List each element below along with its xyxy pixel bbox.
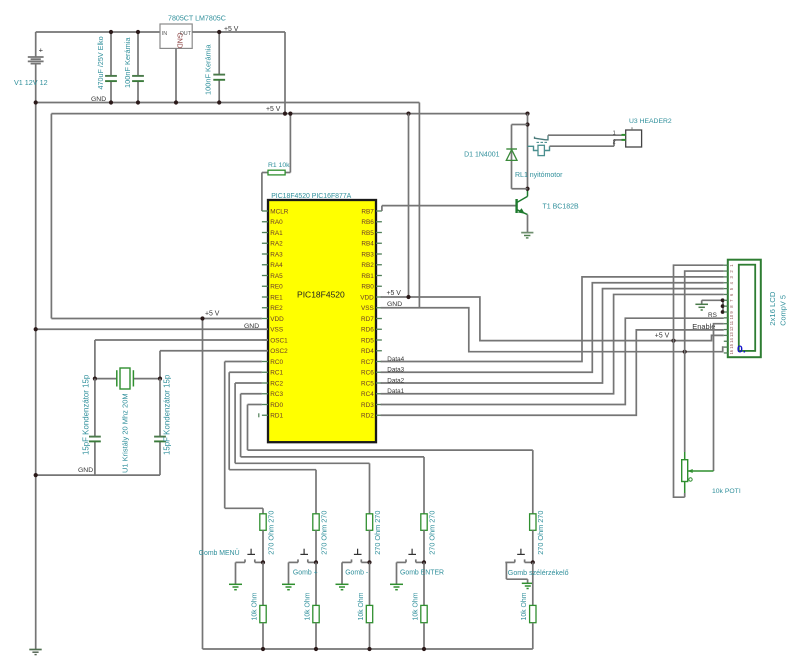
svg-text:Gomb ENTER: Gomb ENTER xyxy=(400,570,444,577)
svg-text:RA3: RA3 xyxy=(270,251,283,258)
svg-text:2x16 LCD: 2x16 LCD xyxy=(768,291,777,326)
svg-text:270 Ohm 270: 270 Ohm 270 xyxy=(427,511,436,555)
svg-text:Gomb MENÜ: Gomb MENÜ xyxy=(199,549,240,557)
svg-text:GND: GND xyxy=(175,33,184,49)
svg-text:10k Ohm: 10k Ohm xyxy=(358,592,365,620)
svg-text:GND: GND xyxy=(91,96,106,103)
svg-text:10: 10 xyxy=(729,314,734,319)
svg-text:RC7: RC7 xyxy=(361,359,374,366)
svg-text:R1 10k: R1 10k xyxy=(268,162,290,169)
svg-text:10k Ohm: 10k Ohm xyxy=(251,592,258,620)
svg-text:470uF /25V Elko: 470uF /25V Elko xyxy=(96,36,105,89)
svg-text:VDD: VDD xyxy=(270,316,284,323)
svg-text:RB2: RB2 xyxy=(361,262,374,269)
svg-text:RB4: RB4 xyxy=(361,241,374,248)
svg-text:RD7: RD7 xyxy=(361,316,374,323)
svg-text:RC2: RC2 xyxy=(270,380,283,387)
svg-text:10k POTI: 10k POTI xyxy=(712,488,741,495)
svg-text:RD4: RD4 xyxy=(361,348,374,355)
svg-text:RC6: RC6 xyxy=(361,370,374,377)
svg-text:270 Ohm 270: 270 Ohm 270 xyxy=(373,511,382,555)
svg-text:Gomb +: Gomb + xyxy=(293,570,318,577)
svg-text:RC4: RC4 xyxy=(361,391,374,398)
svg-text:270 Ohm 270: 270 Ohm 270 xyxy=(266,511,275,555)
svg-text:100nF Kerámia: 100nF Kerámia xyxy=(123,37,132,88)
svg-text:+: + xyxy=(39,45,44,54)
svg-text:12: 12 xyxy=(729,326,734,331)
svg-text:RA4: RA4 xyxy=(270,262,283,269)
svg-text:Data2: Data2 xyxy=(387,377,404,384)
svg-text:RB7: RB7 xyxy=(361,208,374,215)
svg-text:GND: GND xyxy=(244,323,259,330)
svg-text:RB5: RB5 xyxy=(361,230,374,237)
svg-text:RS: RS xyxy=(708,312,717,319)
svg-text:RE2: RE2 xyxy=(270,305,283,312)
svg-text:RD5: RD5 xyxy=(361,337,374,344)
svg-text:OSC1: OSC1 xyxy=(270,337,288,344)
svg-text:2: 2 xyxy=(613,140,616,146)
svg-text:10k Ohm: 10k Ohm xyxy=(304,592,311,620)
svg-text:Gomb szélérzékelő: Gomb szélérzékelő xyxy=(508,569,569,577)
svg-text:11: 11 xyxy=(729,320,734,325)
svg-text:Data3: Data3 xyxy=(387,367,404,374)
svg-text:RE0: RE0 xyxy=(270,284,283,291)
svg-text:RC5: RC5 xyxy=(361,380,374,387)
svg-text:D1 1N4001: D1 1N4001 xyxy=(464,151,500,158)
svg-text:RA1: RA1 xyxy=(270,230,283,237)
svg-text:CompV 5: CompV 5 xyxy=(779,295,788,326)
svg-text:RD6: RD6 xyxy=(361,327,374,334)
svg-text:RA2: RA2 xyxy=(270,241,283,248)
svg-text:OSC2: OSC2 xyxy=(270,348,288,355)
svg-text:7805CT LM7805C: 7805CT LM7805C xyxy=(168,14,226,22)
svg-text:+5 V: +5 V xyxy=(266,106,281,113)
svg-text:VSS: VSS xyxy=(361,305,374,312)
svg-text:RA0: RA0 xyxy=(270,219,283,226)
svg-text:+5 V: +5 V xyxy=(387,290,402,297)
svg-text:+5 V: +5 V xyxy=(655,333,670,340)
svg-text:RB6: RB6 xyxy=(361,219,374,226)
svg-text:10k Ohm: 10k Ohm xyxy=(412,592,419,620)
svg-text:VDD: VDD xyxy=(360,294,374,301)
svg-text:15pF Kondenzátor 15p: 15pF Kondenzátor 15p xyxy=(163,374,172,455)
svg-text:+5 V: +5 V xyxy=(205,311,220,318)
svg-text:U3 HEADER2: U3 HEADER2 xyxy=(629,118,672,125)
svg-text:RD1: RD1 xyxy=(270,413,283,420)
svg-text:100nF Kerámia: 100nF Kerámia xyxy=(204,44,213,95)
svg-text:Gomb -: Gomb - xyxy=(345,570,368,577)
svg-text:VSS: VSS xyxy=(270,327,283,334)
svg-text:PIC18F4520: PIC18F4520 xyxy=(297,290,345,300)
svg-text:RE1: RE1 xyxy=(270,294,283,301)
svg-text:13: 13 xyxy=(729,332,734,337)
svg-text:RL1 nyitómotor: RL1 nyitómotor xyxy=(515,172,563,179)
svg-text:16: 16 xyxy=(729,349,734,354)
svg-text:GND: GND xyxy=(78,467,93,474)
svg-text:RA5: RA5 xyxy=(270,273,283,280)
svg-text:GND: GND xyxy=(387,301,402,308)
svg-text:T1 BC182B: T1 BC182B xyxy=(543,204,580,211)
svg-text:V1 12V 12: V1 12V 12 xyxy=(14,78,48,87)
svg-text:Data1: Data1 xyxy=(387,388,404,395)
svg-text:RC1: RC1 xyxy=(270,370,283,377)
svg-text:RB0: RB0 xyxy=(361,284,374,291)
svg-text:15: 15 xyxy=(729,343,734,348)
svg-text:RD2: RD2 xyxy=(361,413,374,420)
svg-text:PIC18F4520 PIC16F877A: PIC18F4520 PIC16F877A xyxy=(271,193,351,200)
svg-text:RB1: RB1 xyxy=(361,273,374,280)
svg-text:270 Ohm 270: 270 Ohm 270 xyxy=(536,511,545,555)
svg-text:MCLR: MCLR xyxy=(270,208,288,215)
svg-text:RD0: RD0 xyxy=(270,402,283,409)
svg-text:15pF Kondenzátor 15p: 15pF Kondenzátor 15p xyxy=(82,374,91,455)
svg-text:RC3: RC3 xyxy=(270,391,283,398)
svg-text:10k Ohm: 10k Ohm xyxy=(521,592,528,620)
svg-text:0.: 0. xyxy=(737,343,746,355)
svg-text:Enable: Enable xyxy=(692,322,715,331)
svg-text:IN: IN xyxy=(162,31,167,37)
svg-text:270 Ohm 270: 270 Ohm 270 xyxy=(319,511,328,555)
svg-text:RD3: RD3 xyxy=(361,402,374,409)
svg-text:+5 V: +5 V xyxy=(224,26,239,33)
svg-text:U1 Kristály 20 Mhz 20M: U1 Kristály 20 Mhz 20M xyxy=(121,393,130,473)
svg-text:14: 14 xyxy=(729,338,734,343)
svg-text:RC0: RC0 xyxy=(270,359,283,366)
svg-text:1: 1 xyxy=(613,131,616,137)
svg-text:RB3: RB3 xyxy=(361,251,374,258)
svg-text:Data4: Data4 xyxy=(387,356,404,363)
